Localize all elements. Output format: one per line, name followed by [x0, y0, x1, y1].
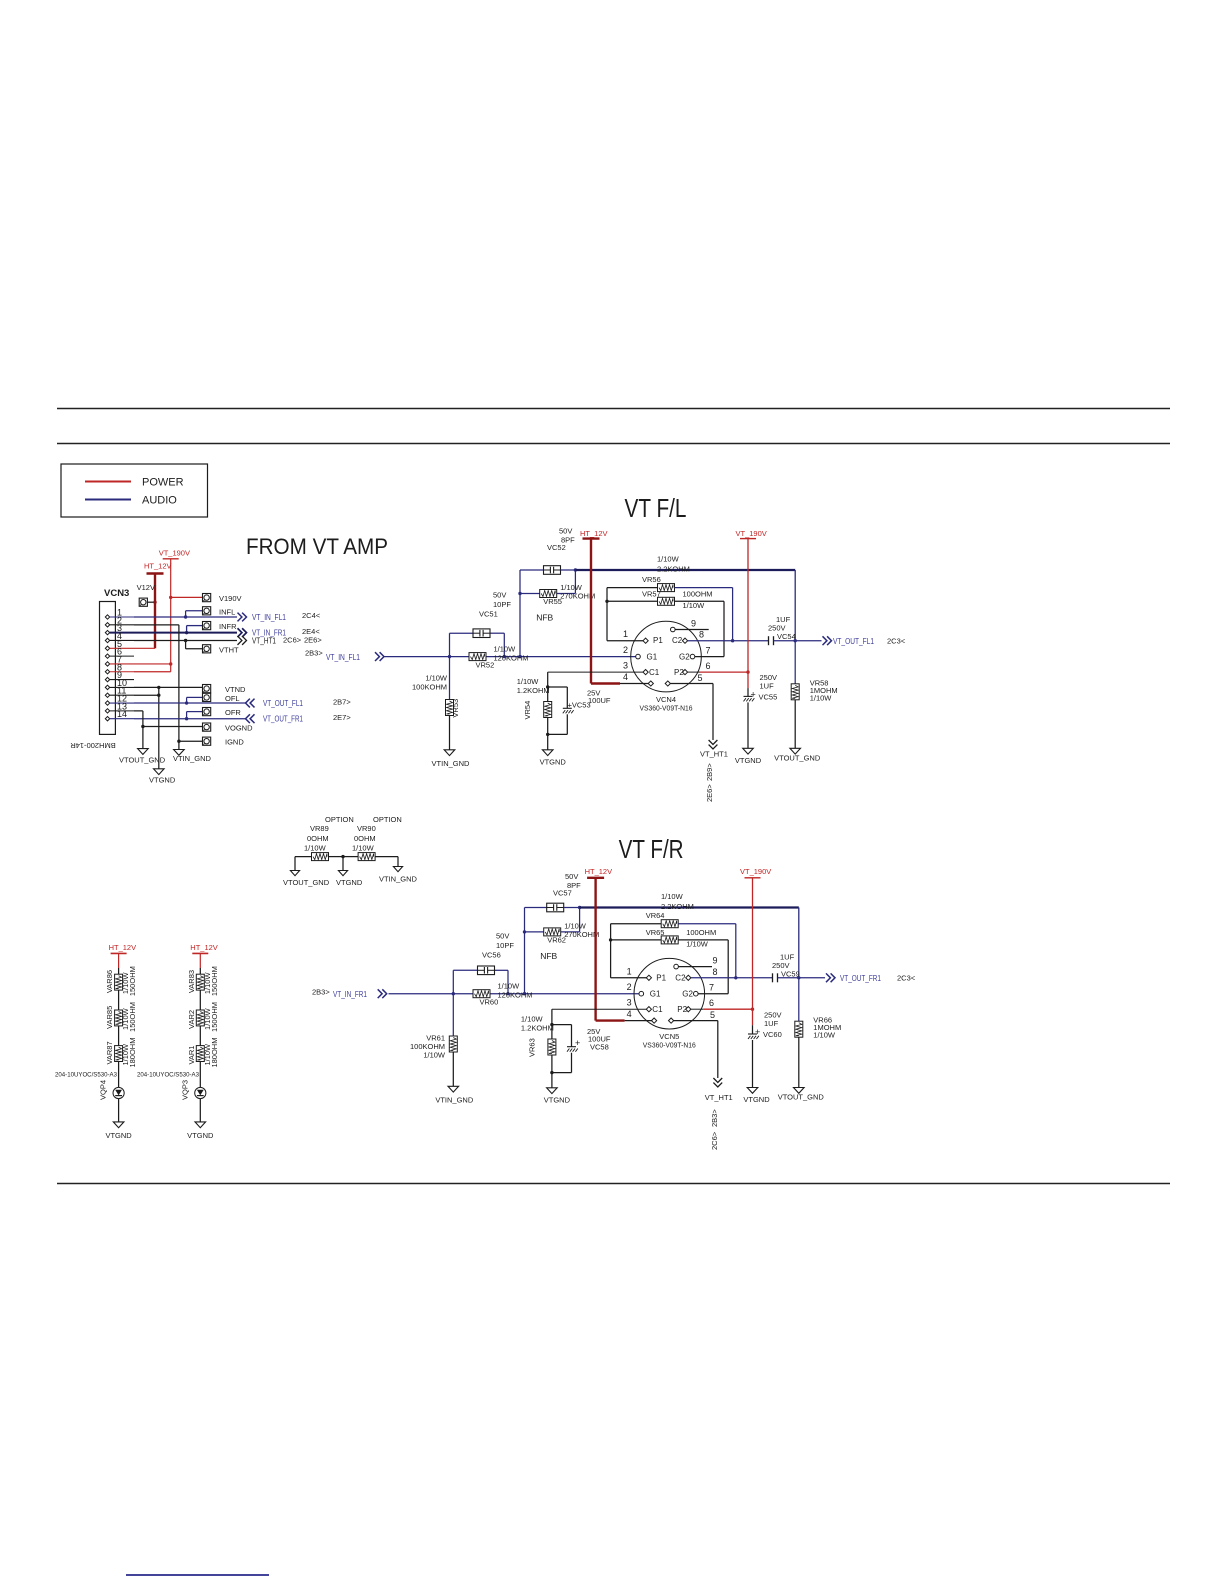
- ground VTGND (VQP3): [187, 1122, 214, 1140]
- resistor VR52 (120KOHM): [469, 645, 529, 670]
- power HT_12V (F/R): [585, 867, 625, 1021]
- ground VTGND (F/L decouple): [735, 748, 762, 765]
- svg-text:7: 7: [709, 983, 714, 993]
- svg-text:HT_12V: HT_12V: [144, 562, 172, 571]
- svg-text:IGND: IGND: [225, 738, 244, 747]
- connector VCN3 pin 4: [105, 631, 134, 643]
- svg-text:VT_190V: VT_190V: [740, 867, 771, 876]
- svg-text:VT_IN_FL1: VT_IN_FL1: [252, 613, 286, 622]
- ground VTOUT_GND (F/L): [774, 748, 821, 762]
- svg-text:VAR85: VAR85: [105, 1006, 114, 1029]
- svg-text:VC51: VC51: [479, 610, 498, 619]
- title FROM VT AMP: [246, 534, 388, 559]
- resistor VR90 (0OHM): [341, 824, 398, 861]
- node VT_OUT_FL1: [795, 636, 906, 646]
- svg-text:150OHM: 150OHM: [128, 1002, 137, 1032]
- node VT_HT1 (F/R): [705, 1021, 733, 1102]
- tube pin G2 (7): [682, 983, 728, 999]
- test point V190V: [169, 594, 242, 604]
- capacitor VC55 (1UF 250V): [744, 672, 778, 748]
- resistor VAR85 (150OHM): [105, 1002, 137, 1046]
- node VT_IN_FL1 (2B3): [305, 649, 384, 662]
- svg-text:8: 8: [699, 630, 704, 640]
- svg-text:VT_190V: VT_190V: [159, 548, 190, 557]
- svg-text:HT_12V: HT_12V: [580, 529, 608, 538]
- node VT_IN_FR1 (VCN3): [238, 627, 321, 638]
- resistor VAR87 (180OHM): [105, 1038, 137, 1068]
- tube VCN5 envelope: [634, 958, 705, 1049]
- connector VCN3 pin 5: [105, 639, 134, 651]
- LED VQP3 (204-10UYOC/S530-A3): [137, 1062, 206, 1122]
- wire VT_IN_FL1 line: [385, 655, 639, 658]
- node VT_OUT_FR1: [799, 973, 916, 983]
- svg-text:VC52: VC52: [547, 543, 566, 552]
- label OPTION (VR90): [373, 815, 402, 824]
- wire pin4 VT_HT1: [134, 639, 237, 641]
- svg-text:1/10W: 1/10W: [683, 601, 706, 610]
- svg-text:VT_OUT_FR1: VT_OUT_FR1: [840, 974, 881, 983]
- capacitor VC60 (1UF 250V): [748, 1009, 782, 1087]
- svg-text:FROM VT AMP: FROM VT AMP: [246, 534, 388, 559]
- connector VCN3 pin 1: [105, 608, 134, 620]
- svg-text:VT_OUT_FL1: VT_OUT_FL1: [833, 637, 874, 646]
- svg-text:VR52: VR52: [476, 661, 495, 670]
- svg-text:1UF: 1UF: [764, 1019, 779, 1028]
- svg-text:120KOHM: 120KOHM: [498, 991, 533, 1000]
- svg-text:VTHT: VTHT: [219, 645, 239, 654]
- svg-text:NFB: NFB: [536, 613, 553, 623]
- connector VCN3 pin 7: [105, 654, 134, 666]
- label 2C6&gt; (rotated): [710, 1131, 719, 1150]
- svg-text:100OHM: 100OHM: [686, 928, 716, 937]
- svg-text:VOGND: VOGND: [225, 723, 253, 732]
- svg-text:VTGND: VTGND: [187, 1131, 214, 1140]
- ground VTOUT_GND (F/R): [778, 1088, 825, 1102]
- svg-text:1.2KOHM: 1.2KOHM: [517, 686, 550, 695]
- tube pin C1 (3): [548, 661, 660, 677]
- resistor VAR86 (150OHM): [105, 966, 137, 1010]
- svg-text:180OHM: 180OHM: [210, 1038, 219, 1068]
- svg-text:4: 4: [623, 672, 628, 682]
- svg-text:V190V: V190V: [219, 594, 242, 603]
- svg-text:2E6>: 2E6>: [705, 784, 714, 802]
- svg-text:14: 14: [117, 709, 127, 719]
- svg-text:VTGND: VTGND: [544, 1095, 571, 1104]
- connector VCN3 part number BMH200-14R: [70, 741, 116, 750]
- ground VTOUT_GND (VCN3): [119, 749, 166, 765]
- svg-text:VAR83: VAR83: [187, 970, 196, 993]
- test point VTND: [203, 685, 247, 694]
- svg-text:OPTION: OPTION: [325, 815, 354, 824]
- svg-text:VTOUT_GND: VTOUT_GND: [778, 1093, 825, 1102]
- svg-text:9: 9: [713, 956, 718, 966]
- ground VTGND (F/L cathode): [540, 750, 567, 767]
- power HT_12V (VCN3): [144, 562, 172, 649]
- svg-text:2C3<: 2C3<: [897, 974, 916, 983]
- svg-text:2C6>: 2C6>: [283, 636, 302, 645]
- svg-text:VR62: VR62: [547, 935, 566, 944]
- tube pin C2 (8): [672, 630, 769, 646]
- resistor VR54 (1.2KOHM): [517, 672, 552, 750]
- svg-text:2C4<: 2C4<: [302, 611, 321, 620]
- test point IGND: [177, 737, 244, 747]
- node VT_HT1 (F/L): [700, 684, 728, 759]
- svg-text:150OHM: 150OHM: [210, 1002, 219, 1032]
- capacitor VC52 (8PF): [520, 527, 577, 575]
- svg-text:VT F/R: VT F/R: [619, 834, 684, 864]
- wire pin1 VT_IN_FL1: [134, 616, 237, 618]
- svg-text:VR53: VR53: [451, 699, 460, 718]
- svg-text:3: 3: [627, 998, 632, 1008]
- ground VTIN_GND (F/R): [435, 1086, 474, 1104]
- svg-text:50V: 50V: [493, 591, 506, 600]
- svg-text:100OHM: 100OHM: [683, 589, 713, 598]
- wire pin11 to VTGND bus: [134, 694, 161, 697]
- svg-text:VTOUT_GND: VTOUT_GND: [283, 878, 330, 887]
- svg-text:VC56: VC56: [482, 951, 501, 960]
- svg-text:VT_OUT_FL1: VT_OUT_FL1: [263, 699, 303, 708]
- svg-text:0OHM: 0OHM: [354, 834, 376, 843]
- svg-text:P1: P1: [653, 636, 663, 645]
- resistor VR66 (1MOHM): [795, 978, 841, 1088]
- svg-text:5: 5: [698, 673, 703, 683]
- node VT_OUT_FL1 (VCN3): [246, 698, 352, 709]
- resistor VR53 (100KOHM) to ground: [412, 657, 460, 750]
- svg-text:VTOUT_GND: VTOUT_GND: [774, 753, 821, 762]
- svg-text:1/10W: 1/10W: [657, 555, 680, 564]
- tube pin C1 (3): [552, 998, 663, 1014]
- tube pin P2 (6): [677, 998, 754, 1014]
- ground VTGND (F/R decouple): [743, 1088, 770, 1105]
- svg-text:2.2KOHM: 2.2KOHM: [657, 565, 690, 574]
- resistor VR60 (120KOHM): [473, 982, 533, 1007]
- resistor VAR83 (150OHM): [187, 966, 219, 1010]
- svg-text:VR65: VR65: [646, 928, 665, 937]
- tube pin G1 (2): [623, 645, 658, 661]
- svg-text:150OHM: 150OHM: [210, 966, 219, 996]
- svg-text:HT_12V: HT_12V: [109, 943, 137, 952]
- svg-text:7: 7: [706, 646, 711, 656]
- ground VTGND (VCN3): [149, 769, 176, 785]
- svg-text:VT_HT1: VT_HT1: [700, 750, 728, 759]
- legend box: [61, 464, 208, 517]
- svg-text:VC58: VC58: [590, 1043, 609, 1052]
- power HT_12V (F/L): [580, 529, 620, 684]
- svg-text:VT_190V: VT_190V: [736, 529, 767, 538]
- resistor VR57 (100OHM): [607, 589, 724, 656]
- svg-text:P2: P2: [677, 1005, 687, 1014]
- svg-text:1/10W: 1/10W: [517, 677, 540, 686]
- svg-text:HT_12V: HT_12V: [190, 943, 218, 952]
- svg-text:VTOUT_GND: VTOUT_GND: [119, 756, 166, 765]
- label NFB: [536, 613, 553, 623]
- node VT_HT1 (VCN3): [238, 636, 323, 646]
- test point VOGND: [141, 723, 253, 732]
- svg-text:C1: C1: [652, 1005, 663, 1014]
- capacitor VC54 (1UF 250V): [768, 615, 797, 645]
- svg-text:4: 4: [627, 1009, 632, 1019]
- svg-text:OFL: OFL: [225, 694, 240, 703]
- wire pin7 to VT_190V: [134, 662, 172, 665]
- svg-text:VT F/L: VT F/L: [625, 493, 687, 523]
- wire pin12 VT_OUT_FL1: [134, 702, 246, 704]
- svg-text:100KOHM: 100KOHM: [412, 683, 447, 692]
- resistor VAR2 (150OHM): [187, 1002, 219, 1046]
- svg-text:2E6>: 2E6>: [304, 636, 322, 645]
- svg-text:VR54: VR54: [523, 701, 532, 720]
- svg-text:C2: C2: [675, 973, 686, 982]
- svg-text:2B3>: 2B3>: [312, 988, 330, 997]
- wire pin13 VTOUT_GND bus: [134, 711, 143, 749]
- power HT_12V (VQP4 chain): [109, 943, 137, 974]
- wire VT_IN_FR1 line: [389, 992, 642, 995]
- wire pin8 to VT_190V: [134, 671, 171, 673]
- capacitor VC57 (8PF): [525, 872, 582, 912]
- svg-text:VTGND: VTGND: [743, 1095, 770, 1104]
- svg-text:VAR2: VAR2: [187, 1010, 196, 1029]
- ground VTGND (VQP4): [105, 1122, 132, 1140]
- tube pin C2 (8): [675, 967, 772, 983]
- resistor VR58 (1MOHM): [791, 641, 837, 749]
- svg-text:G1: G1: [647, 652, 658, 661]
- wire pin10 VTND: [134, 686, 203, 689]
- legend AUDIO: [85, 495, 177, 507]
- wire heater pin 4: [625, 1009, 655, 1021]
- capacitor VC58 (100UF): [552, 1025, 611, 1073]
- svg-text:0OHM: 0OHM: [307, 834, 329, 843]
- connector VCN3 body: [100, 588, 130, 734]
- svg-text:1/10W: 1/10W: [423, 1051, 446, 1060]
- svg-text:P1: P1: [656, 973, 666, 982]
- label OPTION (VR89): [325, 815, 354, 824]
- connector VCN3 pin 8: [105, 662, 134, 674]
- connector VCN3 pin 2: [105, 615, 134, 627]
- svg-text:2B9>: 2B9>: [705, 763, 714, 781]
- resistor VR64: [611, 911, 738, 979]
- connector VCN3 pin 10: [105, 678, 134, 690]
- svg-text:G1: G1: [650, 989, 661, 998]
- title VT F/L: [625, 493, 687, 523]
- power VT_190V (F/R): [740, 867, 771, 1009]
- svg-text:2: 2: [627, 982, 632, 992]
- svg-text:2C3<: 2C3<: [887, 636, 906, 645]
- svg-text:AUDIO: AUDIO: [142, 495, 177, 507]
- node VT_IN_FR1 (2B3): [312, 988, 387, 1000]
- wire pin5 to HT_12V: [134, 647, 155, 649]
- svg-text:VR57: VR57: [642, 589, 661, 598]
- svg-text:3: 3: [623, 661, 628, 671]
- wire plate P1 feedback: [609, 924, 649, 978]
- wire pin2 VTIN_GND bus: [134, 625, 179, 750]
- connector VCN3 pin 9: [105, 670, 134, 682]
- connector VCN3 pin 13: [105, 701, 134, 713]
- svg-text:VT_IN_FL1: VT_IN_FL1: [326, 653, 360, 662]
- svg-text:VR90: VR90: [357, 824, 376, 833]
- svg-text:1/10W: 1/10W: [498, 982, 521, 991]
- svg-text:5: 5: [710, 1010, 715, 1020]
- svg-text:OFR: OFR: [225, 708, 241, 717]
- capacitor VC51 (10PF): [450, 591, 512, 657]
- svg-text:50V: 50V: [559, 527, 572, 536]
- power VT_190V (F/L): [736, 529, 767, 672]
- svg-text:VTGND: VTGND: [735, 756, 762, 765]
- svg-text:POWER: POWER: [142, 477, 184, 489]
- svg-text:G2: G2: [679, 652, 690, 661]
- svg-text:NFB: NFB: [540, 951, 557, 961]
- svg-text:+: +: [755, 1027, 760, 1037]
- label 2E6&gt; (rotated): [705, 784, 714, 802]
- svg-text:VTIN_GND: VTIN_GND: [173, 754, 212, 763]
- svg-text:VS360-V09T-N16: VS360-V09T-N16: [640, 704, 693, 713]
- svg-text:1.2KOHM: 1.2KOHM: [521, 1024, 554, 1033]
- svg-text:+VC53: +VC53: [568, 701, 591, 710]
- svg-text:VQP4: VQP4: [99, 1080, 108, 1100]
- svg-text:1/10W: 1/10W: [686, 939, 709, 948]
- svg-text:INFL: INFL: [219, 607, 235, 616]
- wire NFB node vertical: [523, 908, 526, 994]
- svg-text:1UF: 1UF: [760, 682, 775, 691]
- power VT_190V (VCN3): [159, 548, 190, 671]
- svg-text:1/10W: 1/10W: [813, 1031, 836, 1040]
- svg-text:2B3>: 2B3>: [710, 1109, 719, 1127]
- svg-text:1/10W: 1/10W: [352, 844, 375, 853]
- svg-text:HT_12V: HT_12V: [585, 867, 613, 876]
- test point V12V: [137, 583, 157, 606]
- svg-text:VC57: VC57: [553, 889, 572, 898]
- svg-text:10PF: 10PF: [493, 600, 511, 609]
- title VT F/R: [619, 834, 684, 864]
- svg-text:VTND: VTND: [225, 685, 246, 694]
- resistor VR62 (270KOHM): [525, 908, 600, 945]
- svg-text:VQP3: VQP3: [180, 1080, 189, 1100]
- test point INFL: [184, 607, 235, 619]
- svg-text:1/10W: 1/10W: [425, 674, 448, 683]
- ground VTGND (F/R cathode): [544, 1088, 571, 1105]
- svg-text:VS360-V09T-N16: VS360-V09T-N16: [643, 1041, 696, 1050]
- svg-text:VC59: VC59: [781, 969, 800, 978]
- svg-text:6: 6: [709, 998, 714, 1008]
- node VT_IN_FL1 (VCN3): [238, 611, 321, 622]
- svg-text:VAR87: VAR87: [105, 1041, 114, 1064]
- svg-text:2E7>: 2E7>: [333, 713, 351, 722]
- tube pin G1 (2): [627, 982, 661, 998]
- wire NFB node vertical: [518, 570, 521, 657]
- svg-text:G2: G2: [682, 989, 693, 998]
- tube pin 9: [674, 956, 718, 969]
- label 2B9&gt; (rotated): [705, 763, 714, 781]
- svg-text:1/10W: 1/10W: [810, 693, 833, 702]
- resistor VR55 (270KOHM): [520, 570, 595, 606]
- ground VTIN_GND (VCN3): [173, 750, 212, 764]
- tube VCN4 envelope: [631, 621, 702, 712]
- test point INFR: [185, 622, 237, 635]
- svg-text:VT_OUT_FR1: VT_OUT_FR1: [263, 715, 303, 724]
- tube pin G2 (7): [679, 646, 724, 662]
- svg-text:VTGND: VTGND: [540, 757, 567, 766]
- svg-text:204-10UYOC/S530-A3: 204-10UYOC/S530-A3: [55, 1072, 117, 1079]
- svg-text:2C6>: 2C6>: [710, 1131, 719, 1150]
- svg-text:VR89: VR89: [310, 824, 329, 833]
- svg-text:VAR86: VAR86: [105, 970, 114, 993]
- svg-text:+: +: [575, 1038, 580, 1048]
- tube heater pins: [648, 673, 713, 686]
- svg-text:2B7>: 2B7>: [333, 698, 351, 707]
- svg-text:VTIN_GND: VTIN_GND: [379, 875, 418, 884]
- tube heater pins: [652, 1010, 718, 1023]
- wire feedback top 2.2KOHM line: [580, 892, 799, 978]
- ground VTIN_GND (F/L): [432, 750, 471, 768]
- svg-text:50V: 50V: [565, 872, 578, 881]
- capacitor VC59 (1UF 250V): [772, 952, 801, 982]
- resistor VR63 (1.2KOHM): [521, 1009, 556, 1088]
- ground VTIN_GND (option): [379, 857, 418, 884]
- capacitor VC56 (10PF): [453, 932, 514, 994]
- svg-text:VR60: VR60: [480, 998, 499, 1007]
- svg-text:1: 1: [623, 629, 628, 639]
- svg-text:10PF: 10PF: [496, 941, 514, 950]
- svg-text:1/10W: 1/10W: [661, 892, 684, 901]
- connector VCN3 pin 14: [105, 709, 134, 721]
- svg-text:VR63: VR63: [527, 1038, 536, 1057]
- tube pin P1: [646, 973, 666, 982]
- svg-text:INFR: INFR: [219, 622, 237, 631]
- svg-text:1/10W: 1/10W: [521, 1015, 544, 1024]
- svg-text:1: 1: [627, 966, 632, 976]
- svg-text:BMH200-14R: BMH200-14R: [70, 741, 116, 750]
- connector VCN3 pin 3: [105, 623, 134, 635]
- svg-text:OPTION: OPTION: [373, 815, 402, 824]
- svg-text:P2: P2: [674, 668, 684, 677]
- tube pin P1: [643, 636, 663, 645]
- node VT_OUT_FR1 (VCN3): [246, 713, 352, 724]
- svg-text:VTGND: VTGND: [336, 878, 363, 887]
- power HT_12V (VQP3 chain): [190, 943, 218, 974]
- svg-text:VTGND: VTGND: [149, 776, 176, 785]
- svg-text:C2: C2: [672, 636, 683, 645]
- svg-text:2E4<: 2E4<: [302, 627, 320, 636]
- svg-text:VC55: VC55: [759, 693, 778, 702]
- svg-text:2: 2: [623, 645, 628, 655]
- svg-text:270KOHM: 270KOHM: [564, 930, 599, 939]
- connector VCN3 pin 6: [105, 647, 134, 659]
- wire pin3 VT_IN_FR1: [134, 632, 237, 634]
- resistor VR89 (0OHM): [295, 824, 343, 861]
- svg-text:120KOHM: 120KOHM: [494, 654, 529, 663]
- test point VTHT: [184, 639, 239, 655]
- svg-text:2.2KOHM: 2.2KOHM: [661, 902, 694, 911]
- svg-text:1/10W: 1/10W: [494, 645, 517, 654]
- svg-text:9: 9: [691, 619, 696, 629]
- resistor VR56: [607, 575, 734, 642]
- ground VTOUT_GND (option): [283, 857, 330, 887]
- capacitor VC53 (100UF): [548, 687, 611, 734]
- svg-text:VC60: VC60: [763, 1030, 782, 1039]
- svg-text:204-10UYOC/S530-A3: 204-10UYOC/S530-A3: [137, 1072, 199, 1079]
- ground VTGND (option): [336, 857, 363, 887]
- resistor VR65 (100OHM): [611, 928, 729, 994]
- legend POWER: [85, 477, 184, 489]
- svg-text:8: 8: [713, 967, 718, 977]
- wire VTGND bus: [158, 687, 160, 768]
- svg-text:VCN3: VCN3: [104, 588, 129, 599]
- LED VQP4 (204-10UYOC/S530-A3): [55, 1062, 124, 1122]
- tube pin 9: [671, 619, 709, 632]
- connector VCN3 pin 12: [105, 694, 134, 706]
- svg-text:2B3>: 2B3>: [305, 649, 323, 658]
- connector VCN3 pin 11: [105, 686, 134, 698]
- svg-text:VTIN_GND: VTIN_GND: [435, 1095, 474, 1104]
- svg-text:VT_HT1: VT_HT1: [252, 637, 276, 646]
